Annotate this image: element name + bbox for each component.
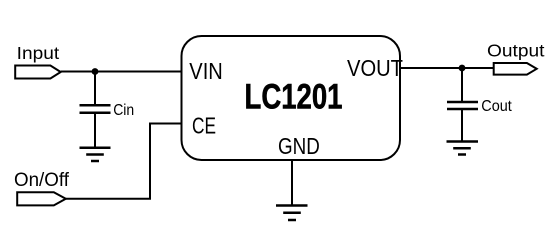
junction input/Cin <box>92 68 99 75</box>
node On/Off tag <box>17 192 66 205</box>
svg-text:CE: CE <box>192 112 216 138</box>
node Output tag <box>494 63 537 75</box>
svg-text:Input: Input <box>17 43 60 63</box>
ground below GND pin <box>276 206 308 221</box>
svg-text:Cin: Cin <box>113 102 134 119</box>
ground below Cin <box>80 148 111 161</box>
capacitor C1 Cin plates <box>80 105 111 113</box>
wire Cout bottom plate to ground <box>461 110 463 142</box>
wire VOUT to output <box>400 67 494 69</box>
node Input tag <box>15 66 61 79</box>
svg-text:GND: GND <box>278 133 320 159</box>
junction vout/Cout <box>459 65 466 72</box>
ground below Cout <box>447 142 479 155</box>
wire Cin bottom plate to ground <box>94 114 96 148</box>
wire GND pin to ground <box>291 160 293 206</box>
wire junction to Cout top plate <box>461 68 463 101</box>
svg-text:VIN: VIN <box>189 58 223 84</box>
svg-text:Cout: Cout <box>481 98 512 115</box>
svg-text:On/Off: On/Off <box>14 170 70 191</box>
svg-text:VOUT: VOUT <box>347 55 403 81</box>
wire junction to Cin top plate <box>94 72 96 105</box>
IC U1 LC1201 voltage regulator body <box>182 36 401 160</box>
svg-text:LC1201: LC1201 <box>245 78 343 117</box>
wire input to VIN <box>61 71 182 73</box>
wire On/Off to CE <box>66 124 182 199</box>
capacitor C2 Cout plates <box>447 102 478 109</box>
svg-text:Output: Output <box>487 41 545 61</box>
